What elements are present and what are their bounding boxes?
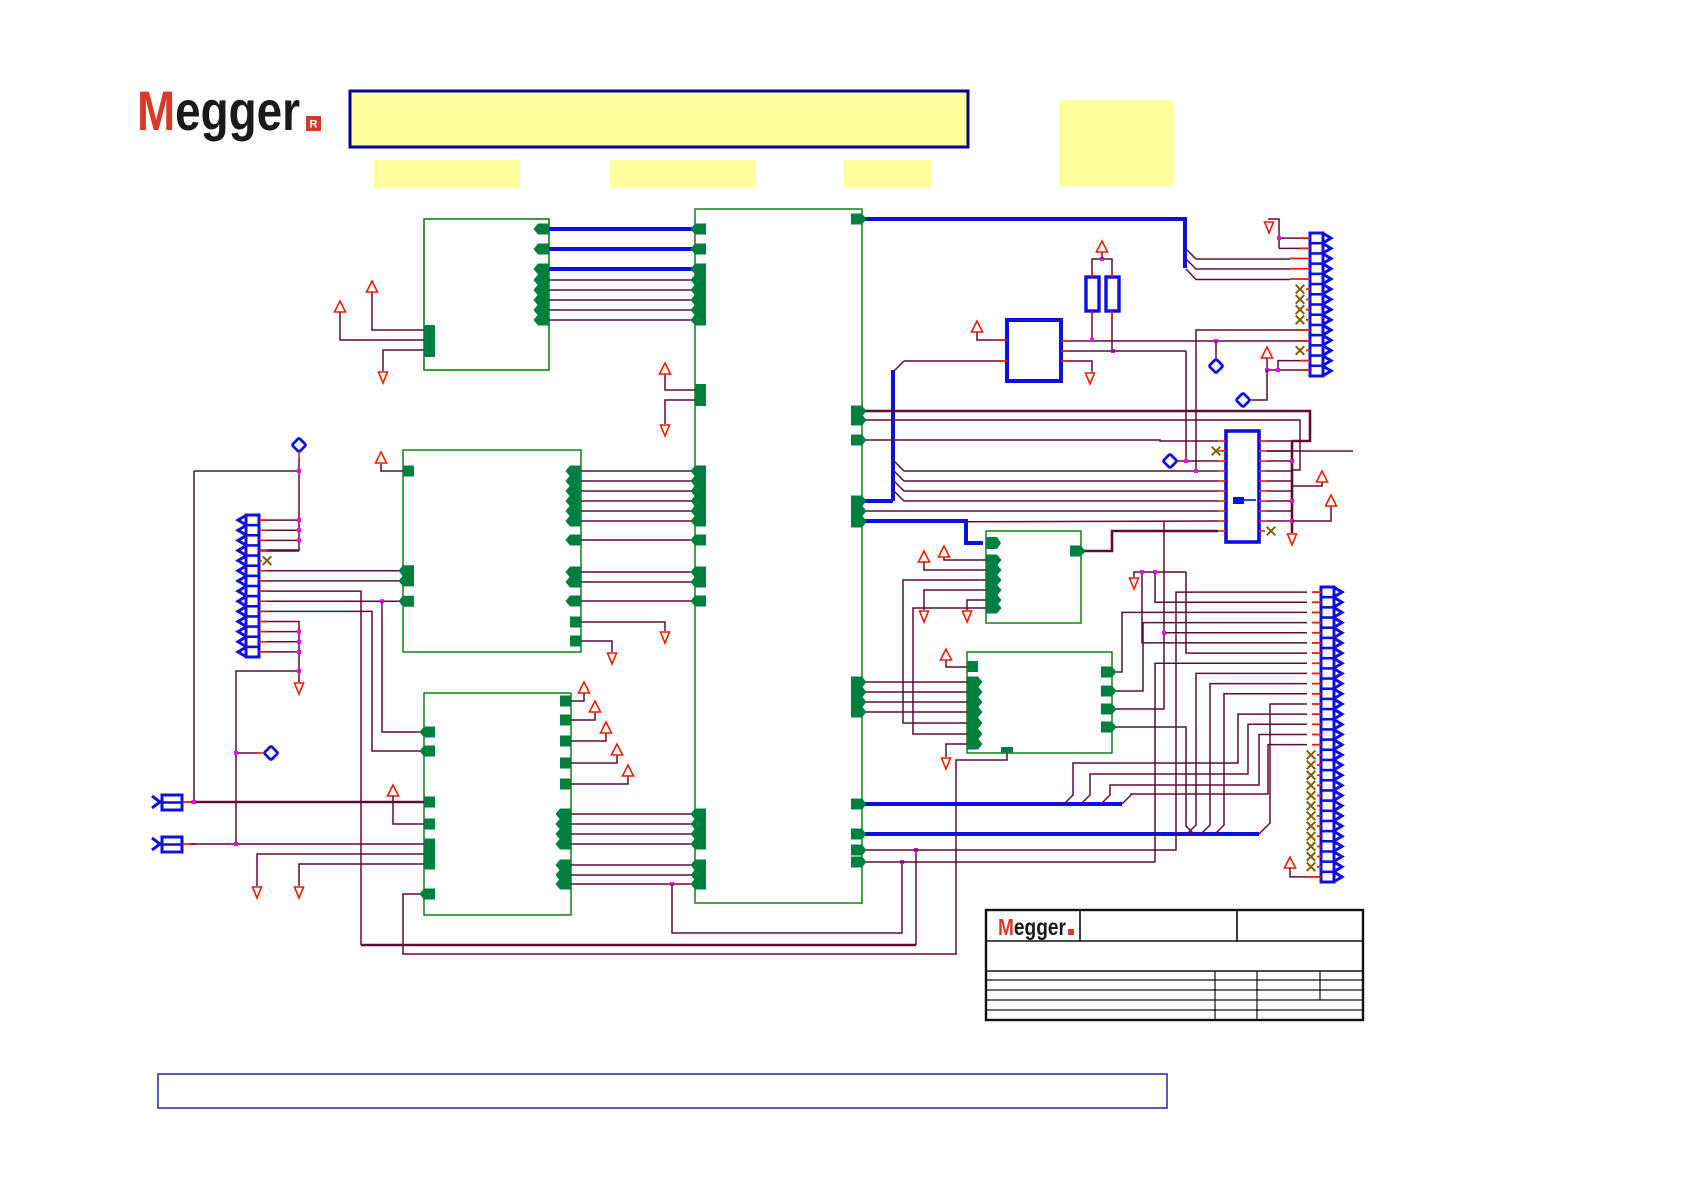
power GND arrow U4-1 bbox=[253, 887, 262, 898]
power VCC arrow U2 left bbox=[660, 363, 671, 374]
wire to J3 pin7 bbox=[1186, 572, 1307, 653]
wire U7 left VCC bbox=[977, 332, 1007, 340]
bus entries 834 to J3 pins 9-11 bbox=[1187, 673, 1307, 834]
J3 red stubs bbox=[1312, 591, 1321, 593]
bus 834 end to J3 pin12 bbox=[1259, 704, 1307, 834]
wire U1-U2 d4 bbox=[549, 319, 695, 321]
wire U1 GND bbox=[383, 350, 424, 371]
IC U6 (lower-right sheet symbol) bbox=[967, 652, 1112, 753]
wire U2 pin850 to J3 pin1 bbox=[862, 592, 1307, 850]
U5 left pins cluster bbox=[986, 555, 1002, 566]
wire P2 to U4 bbox=[191, 843, 424, 845]
svg-text:R: R bbox=[310, 119, 318, 131]
power GND arrow RN1 rail bbox=[1288, 534, 1297, 545]
wire J1 p12 bbox=[259, 631, 299, 633]
wire J1 p1 bbox=[259, 519, 299, 521]
wire J1 p11 group vertical bbox=[259, 622, 299, 683]
wire U5 VCC2 bbox=[924, 562, 986, 570]
wire rail VCC tap 1 bbox=[1292, 482, 1322, 486]
bus trunk transition bbox=[893, 361, 904, 372]
wire U3-U2 9 bbox=[581, 600, 695, 602]
bus U1 to U2 line 2 bbox=[549, 247, 695, 251]
wire rail VCC tap 2 bbox=[1292, 506, 1331, 521]
wire U2 pin521 to RN1 bbox=[862, 521, 1218, 522]
wire J2 GND net pins1-2 bbox=[1265, 222, 1274, 233]
title banner (yellow) bbox=[350, 91, 968, 147]
wire U7 right pin3 gnd bbox=[1061, 361, 1092, 372]
wire U3-U2 4 bbox=[581, 510, 695, 512]
no-connect X J2 pin 12 bbox=[1296, 346, 1305, 355]
wire bottom A riser bbox=[915, 850, 917, 945]
bus U2 pin219 to right bbox=[862, 219, 1185, 268]
IC U2 (central sheet symbol) bbox=[695, 209, 862, 903]
wire GND to J3 pin2/6/7 bbox=[1130, 578, 1139, 589]
resistor network RN1 bbox=[1226, 431, 1259, 542]
bus U2 pin804 bbox=[862, 802, 1122, 806]
wire U2 pin411 thick to RN1 rail bbox=[862, 411, 1310, 441]
bus trunk vertical (blue) bbox=[891, 370, 895, 501]
yellow label 1 bbox=[374, 160, 520, 188]
wire branch 884 under U2 bbox=[672, 862, 902, 933]
wire J1 p7 to U3 bbox=[259, 580, 403, 582]
wire U1-U2 d0 bbox=[549, 279, 695, 281]
wires U2 to U6 bbox=[862, 681, 967, 683]
power GND arrow J1 group bbox=[295, 683, 304, 694]
wire J1 p2 bbox=[259, 529, 299, 531]
wire J1 p14 bbox=[259, 651, 299, 653]
power GND arrow U4-2 bbox=[295, 887, 304, 898]
wire net node to U2 via x194 bbox=[194, 470, 299, 472]
resistor R2 bbox=[1106, 277, 1119, 311]
U2 left pins top bbox=[691, 224, 707, 235]
bus U1 to U2 line 1 bbox=[549, 227, 695, 231]
wire J1 p6 to U3 bbox=[259, 570, 403, 572]
svg-text:Megger: Megger bbox=[137, 79, 300, 142]
wire R1 bottom bbox=[1091, 311, 1093, 340]
title block bbox=[986, 910, 1363, 1020]
wire U1 VCC2 bbox=[340, 312, 424, 340]
no-connect X J3 pins 17-28 bbox=[1307, 751, 1316, 760]
bottom note box bbox=[158, 1074, 1167, 1108]
wire U2 GND pin400 bbox=[665, 400, 695, 424]
wire U6 left pin744 gnd bbox=[967, 739, 983, 750]
wire J2 pin13/14 VCC net bbox=[1262, 347, 1273, 358]
yellow label 3 bbox=[844, 160, 931, 188]
wire D1 vertical bbox=[298, 458, 300, 551]
power GND arrow U1 bbox=[379, 372, 388, 383]
wire P1 to U4 (thick) bbox=[191, 801, 424, 804]
svg-text:Megger: Megger bbox=[998, 914, 1066, 940]
wire U6 top pin VCC bbox=[967, 661, 978, 672]
wire U5 right pin to RN1 p10 bbox=[1081, 531, 1218, 551]
power GND arrow U3-r1 bbox=[661, 632, 670, 643]
wire drop to diamond D4 bbox=[1215, 341, 1217, 357]
bus entry wires to J2 top bbox=[1186, 249, 1290, 259]
wire U3-U2 6 bbox=[581, 539, 695, 541]
wire riser x1164 to 522 line bbox=[1163, 522, 1165, 633]
wire U3 gnd1 bbox=[581, 622, 665, 631]
wire J1 p10 to U4 bbox=[259, 611, 424, 751]
diamond port D3 bbox=[1236, 393, 1250, 407]
wires U4 to U2 bottom bbox=[571, 864, 695, 866]
yellow label top-right bbox=[1060, 100, 1173, 186]
wire U3-U2 8 bbox=[581, 581, 695, 583]
IC U7 (blue box) bbox=[1007, 320, 1061, 381]
power VCC arrow U1-2 bbox=[335, 301, 346, 312]
wire D5 junction to RN1 pin 461 bbox=[1186, 460, 1218, 462]
U4 VCC pin 824 bbox=[388, 785, 399, 796]
U3 left VCC pin bbox=[403, 466, 414, 477]
wire U4 gnd 864 bbox=[299, 864, 424, 886]
bus U1 to U2 line 3 bbox=[549, 267, 695, 271]
wire long vertical x194 bbox=[193, 471, 195, 802]
wire long bottom A (thick) bbox=[361, 944, 916, 947]
wire J1 p3 bbox=[259, 539, 299, 541]
IC U1 (top-left sheet symbol) bbox=[424, 219, 549, 370]
wire U1-U2 d2 bbox=[549, 299, 695, 301]
wire U3-U2 7 bbox=[581, 571, 695, 573]
no-connect X J2 pins 6-9 bbox=[1296, 285, 1305, 294]
wire U5 pin608 to U6 bbox=[913, 608, 986, 734]
IC U5 (middle-right sheet symbol) bbox=[986, 531, 1081, 623]
power GND arrow U3-r2 bbox=[608, 653, 617, 664]
wire J1 p8 long vertical bbox=[259, 591, 361, 945]
wire U2 VCC pin390 bbox=[665, 374, 695, 390]
RN1 left pin stubs bbox=[1218, 440, 1226, 442]
wire J1 p13 bbox=[259, 641, 299, 643]
power VCC arrow U1-1 bbox=[367, 281, 378, 292]
IC U3 (middle-left sheet symbol) bbox=[403, 450, 581, 652]
power VCC arrow resistors bbox=[1097, 241, 1108, 252]
U2 pin block 390/400 bbox=[695, 384, 706, 406]
wire U7 right pin1 long to J2 pin11 bbox=[1061, 340, 1310, 342]
U4 right VCC ladder bbox=[560, 696, 571, 707]
wire U3-U2 2 bbox=[581, 490, 695, 492]
wire U3-U2 5 bbox=[581, 520, 695, 522]
yellow label 2 bbox=[610, 160, 756, 188]
wire RN1 pin2 stub to right bbox=[1267, 450, 1353, 452]
wire U2 pin511 to RN1 bbox=[862, 510, 1218, 512]
connector J3 (right, 29-pin) bbox=[1321, 587, 1334, 882]
wire J1 p9 to U3 with branch bbox=[259, 600, 403, 602]
wire branch p9 to U4 bbox=[382, 601, 424, 732]
RN1 right pin stubs and rail bbox=[1259, 440, 1267, 442]
power GND arrow U7 bbox=[1086, 373, 1095, 384]
wire U5 pin580 to U6 bbox=[903, 580, 986, 723]
wire U1 VCC1 bbox=[372, 292, 424, 330]
rail vertical bbox=[1291, 441, 1294, 533]
wire U5 pin600 gnd bbox=[967, 600, 986, 610]
wire U7 right pin2 bbox=[1061, 350, 1186, 352]
wire vertical x1186 bbox=[1178, 351, 1186, 461]
wire U5 VCC1 bbox=[944, 557, 986, 560]
bus trunk to U2 pin501 bbox=[862, 499, 893, 503]
no-connect X J1 p5 bbox=[263, 556, 272, 565]
wire U3-U2 1 bbox=[581, 480, 695, 482]
wire U3-U2 3 bbox=[581, 500, 695, 502]
bus U2 pin521b to U5 bbox=[862, 521, 983, 543]
wire U4 gnd 854 bbox=[257, 854, 424, 886]
wire U7 left pin2 to bus trunk bbox=[904, 360, 1007, 362]
bus U2 pin834 bbox=[862, 832, 1259, 836]
wire U5 pin590 gnd bbox=[924, 590, 986, 610]
wire VCC net to diamond D3 bbox=[1252, 370, 1267, 400]
wire J1 p4 thick bbox=[259, 549, 299, 552]
connector P2 (2-pin, left) bbox=[152, 838, 160, 850]
wire R1R2 tops to VCC bbox=[1092, 259, 1112, 277]
power VCC arrow U3 left bbox=[376, 452, 387, 463]
wire branch to conn small 2 net bbox=[236, 671, 299, 844]
wire U1-U2 d1 bbox=[549, 289, 695, 291]
connector J2 (right, 14-pin) bbox=[1310, 233, 1323, 376]
U1 left pin block bbox=[424, 325, 435, 357]
wire U6 right pins to J3 bbox=[1112, 612, 1307, 672]
bus trunk entries to RN1 bbox=[893, 460, 1218, 471]
U1 right pins bbox=[534, 224, 550, 235]
IC U4 (bottom-left sheet symbol) bbox=[424, 693, 571, 915]
wires U4 to U2 mid bbox=[571, 813, 695, 815]
wire U2 pin440 to RN1 bbox=[862, 440, 1218, 441]
power GND arrow U2 left bbox=[661, 425, 670, 436]
diamond port D4 bbox=[1209, 359, 1223, 373]
no-connect X RN1 right bottom bbox=[1259, 530, 1265, 532]
connector P1 (2-pin, left) bbox=[152, 796, 160, 808]
wire J2 pin10 from below bbox=[1196, 330, 1310, 471]
diamond port D2 bbox=[264, 746, 278, 760]
wire U4 pin894 long route to U6 bbox=[403, 753, 1007, 954]
resistor R1 bbox=[1086, 277, 1099, 311]
wire R2 bottom bbox=[1111, 311, 1113, 351]
wire U4-U2 884 with branch bbox=[571, 883, 695, 885]
bus entries 804 nested routes to J3 bbox=[1064, 714, 1307, 804]
diamond port D5 bbox=[1163, 454, 1177, 468]
connector J1 (left, 14-pin) bbox=[246, 515, 259, 657]
no-connect X RN1 left pin2 bbox=[1212, 447, 1221, 456]
wire U3-U2 0 bbox=[581, 470, 695, 472]
wire U3 gnd2 bbox=[581, 641, 612, 652]
wire U1-U2 d3 bbox=[549, 309, 695, 311]
diamond port D1 bbox=[292, 438, 306, 452]
power VCC arrow U7 bbox=[972, 321, 983, 332]
wire U2 pin862 to J3 pin8 bbox=[862, 663, 1307, 862]
wire J3 bottom pin VCC bbox=[1285, 857, 1296, 868]
wire U2 pin420 bbox=[862, 420, 1300, 470]
